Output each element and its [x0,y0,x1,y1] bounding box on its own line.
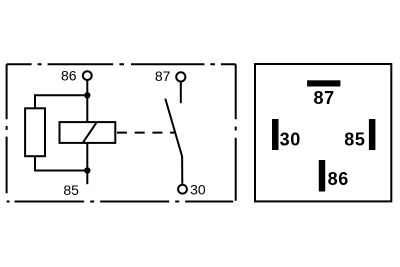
svg-text:85: 85 [63,182,79,198]
svg-text:30: 30 [280,129,301,149]
terminal 86 circle [83,71,92,80]
terminal 87 circle [176,72,185,81]
relay enclosure K1 (dash-dot boundary) [7,64,236,201]
svg-text:87: 87 [314,88,335,108]
svg-text:85: 85 [344,129,365,149]
wire: terminal 86 to node A [86,81,88,96]
wire: node B down to terminal 85 stub [86,171,88,185]
svg-text:30: 30 [190,182,206,198]
relay coil (box with diagonal) [60,122,116,143]
pin 87 blade (horizontal) [307,80,340,86]
dashed actuator link from coil to contact arm [117,132,176,134]
wire: node A left and down to resistor R1 top [35,95,87,108]
node B (junction dot) [84,167,90,173]
pin 85 blade (vertical) [369,119,376,150]
wire: resistor R1 bottom to node B [35,156,87,170]
relay base outline (pin view) [255,64,391,201]
svg-text:87: 87 [155,68,171,84]
node A (junction dot) [84,92,90,98]
resistor R1 (parallel resistor) [25,108,45,156]
pin 86 blade (vertical) [319,160,325,192]
wire: fixed contact 87 [180,82,182,103]
svg-text:86: 86 [61,68,77,84]
pin 30 blade (vertical) [272,119,279,150]
svg-text:86: 86 [328,169,349,189]
terminal 30 circle [178,185,187,194]
wire: node A down to coil top [86,95,88,122]
switch arm S1 (movable contact) [165,99,182,184]
wire: coil bottom to node B [86,143,88,171]
